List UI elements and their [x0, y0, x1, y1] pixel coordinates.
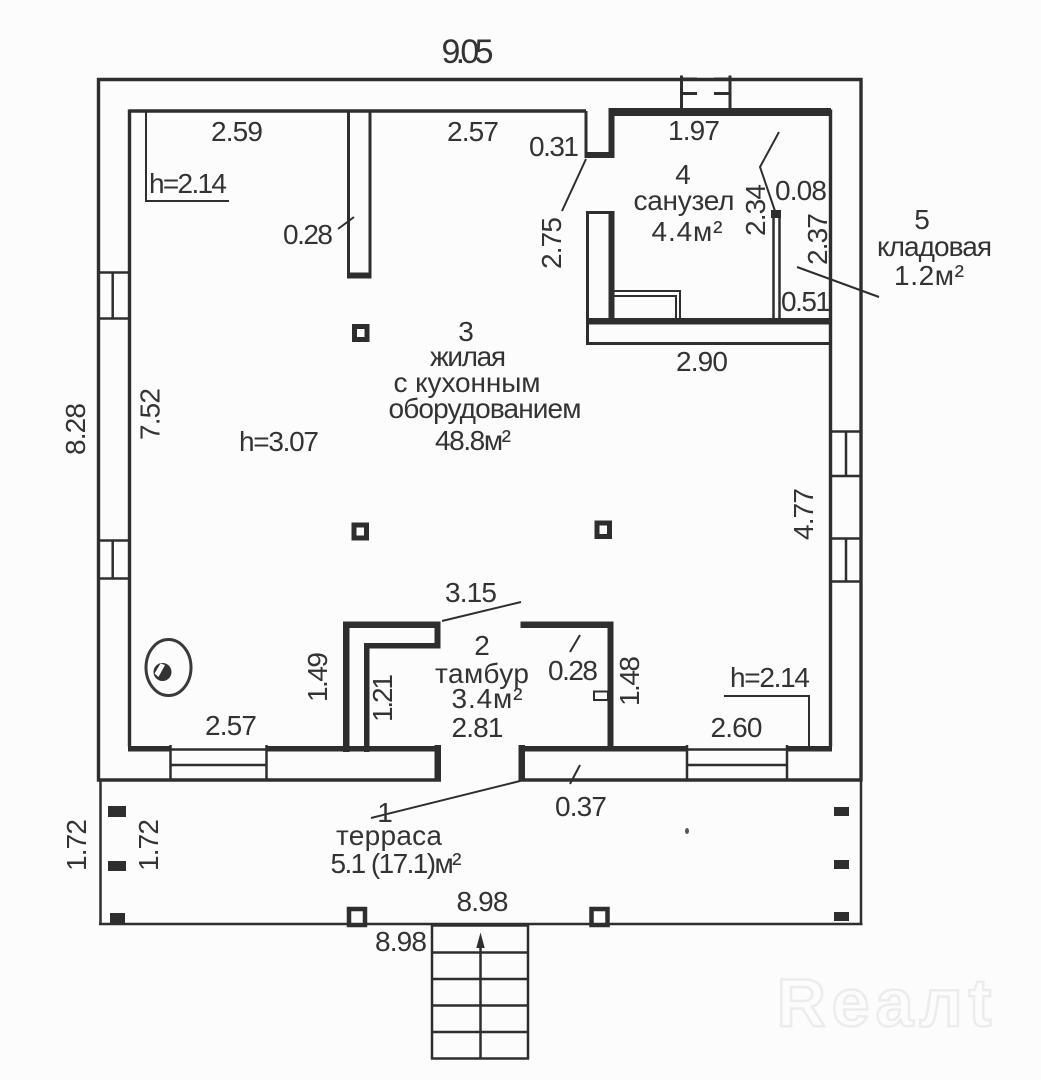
svg-text:9.05: 9.05 — [442, 33, 494, 71]
svg-text:4.4м²: 4.4м² — [652, 216, 723, 247]
svg-text:2.34: 2.34 — [740, 184, 771, 236]
svg-text:Reaлt: Reaлt — [777, 965, 998, 1041]
svg-text:2.57: 2.57 — [447, 116, 499, 147]
svg-text:1.21: 1.21 — [367, 674, 398, 722]
svg-text:1.72: 1.72 — [133, 819, 164, 871]
svg-text:1.72: 1.72 — [61, 819, 92, 871]
svg-text:h=3.07: h=3.07 — [239, 426, 319, 457]
svg-text:2.57: 2.57 — [205, 710, 257, 741]
svg-text:7.52: 7.52 — [135, 388, 166, 440]
svg-text:8.98: 8.98 — [457, 886, 509, 917]
svg-text:2: 2 — [474, 630, 490, 661]
svg-text:1.97: 1.97 — [668, 115, 720, 146]
svg-text:2.60: 2.60 — [711, 712, 763, 743]
svg-text:5.1 (17.1)м²: 5.1 (17.1)м² — [331, 848, 462, 879]
svg-text:1.49: 1.49 — [302, 652, 333, 702]
svg-text:3.4м²: 3.4м² — [452, 683, 523, 714]
svg-text:2.37: 2.37 — [802, 213, 833, 265]
svg-text:0.31: 0.31 — [529, 131, 579, 162]
svg-text:1.48: 1.48 — [614, 656, 645, 706]
svg-text:h=2.14: h=2.14 — [730, 662, 810, 693]
svg-text:4.77: 4.77 — [788, 488, 819, 540]
svg-text:0.37: 0.37 — [555, 791, 607, 822]
svg-text:8.28: 8.28 — [60, 403, 91, 455]
svg-text:0.08: 0.08 — [775, 175, 827, 206]
svg-text:1.2м²: 1.2м² — [894, 260, 964, 291]
svg-text:2.75: 2.75 — [536, 217, 567, 269]
svg-text:кладовая: кладовая — [877, 231, 992, 262]
svg-text:санузел: санузел — [634, 185, 735, 216]
svg-text:0.51: 0.51 — [781, 286, 831, 317]
svg-text:2.90: 2.90 — [676, 346, 728, 377]
svg-text:h=2.14: h=2.14 — [149, 168, 227, 199]
svg-text:0.28: 0.28 — [283, 219, 333, 250]
svg-text:3.15: 3.15 — [445, 577, 497, 608]
svg-text:48.8м²: 48.8м² — [435, 425, 511, 456]
svg-text:2.81: 2.81 — [452, 712, 504, 743]
svg-text:2.59: 2.59 — [211, 116, 263, 147]
svg-text:8.98: 8.98 — [375, 926, 427, 957]
svg-text:оборудованием: оборудованием — [389, 393, 582, 424]
svg-text:0.28: 0.28 — [548, 655, 598, 686]
svg-text:терраса: терраса — [336, 820, 442, 851]
